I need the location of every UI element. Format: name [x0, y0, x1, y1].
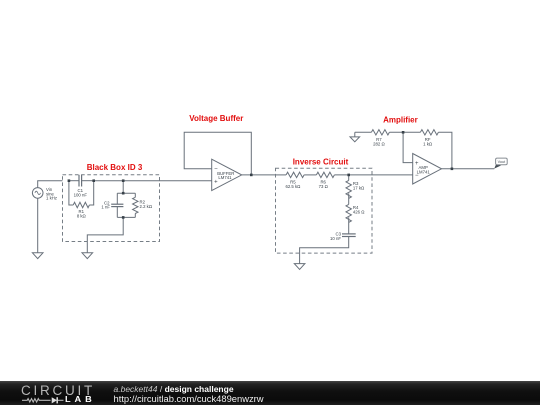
svg-text:Black Box ID 3: Black Box ID 3 [87, 163, 143, 172]
svg-text:Amplifier: Amplifier [383, 115, 418, 124]
svg-text:73 Ω: 73 Ω [319, 184, 329, 189]
svg-text:1 kHz: 1 kHz [46, 196, 57, 201]
svg-text:1 nF: 1 nF [101, 204, 110, 209]
svg-text:2.2 kΩ: 2.2 kΩ [140, 204, 153, 209]
svg-text:Vout: Vout [498, 160, 507, 164]
svg-text:1 kΩ: 1 kΩ [423, 142, 433, 147]
svg-text:Inverse Circuit: Inverse Circuit [293, 157, 349, 166]
svg-text:100 nF: 100 nF [74, 193, 88, 198]
svg-text:282 Ω: 282 Ω [373, 142, 385, 147]
svg-text:10 nF: 10 nF [330, 236, 341, 241]
svg-text:17 kΩ: 17 kΩ [353, 186, 365, 191]
svg-text:LM741: LM741 [417, 170, 431, 175]
svg-text:8 kΩ: 8 kΩ [77, 214, 87, 219]
svg-text:62.5 kΩ: 62.5 kΩ [285, 184, 301, 189]
svg-text:Voltage Buffer: Voltage Buffer [189, 114, 243, 123]
svg-text:426 Ω: 426 Ω [353, 210, 365, 215]
svg-text:LM741: LM741 [218, 175, 232, 180]
